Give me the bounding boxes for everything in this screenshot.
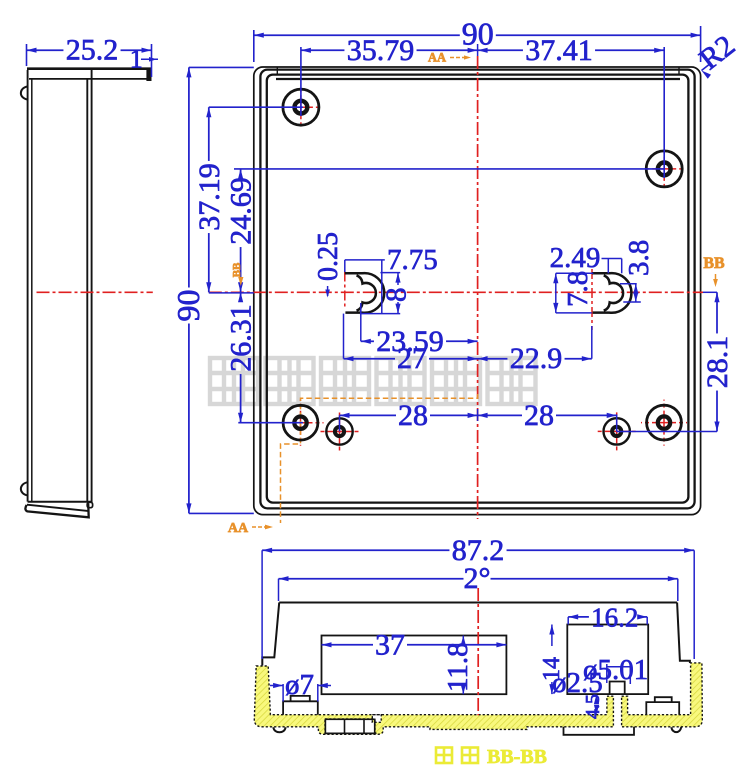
dimension 3.8 right keyhole	[620, 283, 637, 285]
left keyhole inner arc	[357, 275, 376, 310]
red centerline cross: top-right hole	[664, 168, 686, 170]
svg-text:28.1: 28.1	[701, 336, 734, 389]
svg-text:24.69: 24.69	[225, 177, 258, 245]
top-left counterbore hole	[283, 89, 319, 125]
svg-text:4.5: 4.5	[582, 694, 604, 719]
side view: main wall bottom cap	[87, 502, 92, 507]
side view: flange bottom edge	[29, 78, 151, 80]
svg-text:28: 28	[398, 399, 428, 432]
red horizontal centerline BB - main segment	[209, 291, 703, 293]
side view: main wall left line	[86, 79, 88, 503]
section view: top edge line	[279, 602, 677, 604]
top view: extra top inner edge line	[276, 78, 680, 80]
svg-text:7.8: 7.8	[562, 271, 594, 307]
dimension 4.5	[594, 694, 599, 704]
dimension 87.2	[261, 550, 263, 659]
dimension 35.79	[300, 47, 302, 116]
svg-text:28: 28	[524, 399, 554, 432]
svg-text:37.41: 37.41	[525, 34, 593, 67]
side view: left wall inner line	[31, 79, 33, 502]
dimension 23.59	[360, 303, 362, 341]
bottom-left small hole	[326, 418, 352, 444]
left keyhole dimension box 7.75	[345, 259, 385, 261]
bottom-right small hole	[604, 418, 630, 444]
red centerline: left keyhole vertical	[344, 272, 346, 309]
svg-text:2°: 2°	[464, 562, 491, 595]
dimension 22.9	[591, 326, 593, 359]
red centerline cross: bottom-left small hole	[340, 431, 359, 433]
dimension 24.69	[234, 168, 664, 170]
dimension 7.8 right keyhole	[556, 272, 594, 274]
svg-text:8: 8	[381, 288, 413, 303]
right keyhole inner arc	[604, 275, 623, 310]
side view: bottom face upper slant	[27, 505, 88, 511]
dimension 37.41	[663, 47, 665, 178]
svg-text:90: 90	[170, 290, 206, 322]
svg-text:AA: AA	[428, 51, 446, 65]
red horizontal centerline BB - side view segment	[37, 291, 153, 293]
radius leader R2	[702, 63, 712, 71]
svg-text:26.31: 26.31	[225, 304, 258, 372]
svg-text:ø7: ø7	[285, 669, 314, 701]
top view: outer outline rounded square 90x90	[254, 67, 701, 515]
section view: left foot	[273, 727, 285, 732]
red centerline cross: top-left hole	[301, 106, 323, 108]
section view: right foot	[671, 727, 681, 732]
svg-text:11.8: 11.8	[442, 642, 474, 692]
dimension 11.8	[462, 636, 464, 642]
svg-text:27: 27	[397, 342, 427, 375]
red centerline: right keyhole vertical	[591, 269, 593, 330]
section view: yellow hatched cut region right part	[622, 663, 703, 727]
section view: DIN clip inner rectangle	[325, 719, 374, 733]
section view: right pedestal clip	[646, 702, 679, 715]
svg-text:37: 37	[375, 628, 405, 661]
right keyhole slot outline	[592, 273, 631, 313]
red vertical centerline AA (top view)	[477, 56, 479, 519]
dimension 27	[343, 314, 345, 359]
dimension 37 (section)	[322, 644, 374, 646]
svg-text:25.2: 25.2	[66, 34, 119, 67]
red centerline cross: bottom-right small hole	[617, 430, 636, 432]
extension tick below 90 text	[477, 44, 479, 56]
side view: main wall right line	[91, 70, 93, 503]
section view: left upper wall outline	[262, 603, 279, 666]
svg-text:2.49: 2.49	[550, 242, 601, 274]
svg-text:BB-BB: BB-BB	[487, 746, 547, 768]
section view: inner box 16.2 x 14	[567, 625, 648, 695]
section view: inner box 37 x 11.8	[322, 636, 507, 695]
dimension 2 degrees	[278, 579, 280, 601]
red centerline cross: bottom-right big hole	[664, 422, 687, 424]
side view: bottom inner line	[28, 501, 91, 503]
dimension 28.1 right side	[703, 291, 717, 293]
bottom-right big counterbore hole	[647, 405, 682, 440]
dimension 26.31	[238, 422, 303, 424]
svg-text:7.75: 7.75	[387, 244, 438, 276]
side view: left wall outer line	[27, 70, 29, 502]
svg-text:16.2: 16.2	[591, 602, 638, 632]
side view: flange right end cap (1mm tab)	[146, 68, 151, 82]
svg-text:22.9: 22.9	[510, 342, 563, 375]
bottom-left big counterbore hole	[283, 405, 318, 440]
top view: inner wall outline	[267, 75, 689, 503]
svg-text:0.25: 0.25	[313, 232, 344, 281]
red centerline cross: bottom-left big hole	[301, 422, 324, 424]
side view: bottom face lower slant with left corner arc and right cap	[25, 503, 88, 517]
dimension 37.19	[209, 106, 303, 108]
svg-text:37.19: 37.19	[193, 163, 226, 231]
section view: left screw boss pedestal	[283, 701, 318, 714]
section view: yellow hatched cut region left wall and bottom band	[254, 666, 613, 734]
svg-text:AA: AA	[228, 521, 249, 536]
svg-text:BB: BB	[703, 255, 725, 272]
dimension 16.2	[567, 617, 569, 625]
section view: recess rectangle below band right	[564, 727, 635, 735]
dimension 8 left keyhole	[380, 272, 400, 274]
dimension dia 7	[282, 684, 284, 702]
dimension chain 28 + 28	[339, 415, 341, 431]
top view: top-right corner parting tick	[678, 67, 680, 75]
side view: flange top edge	[27, 67, 151, 70]
dimension 90 top	[253, 30, 255, 62]
side view: upper clip bump	[21, 86, 28, 99]
top view: middle outline	[260, 70, 694, 509]
dimension dia 5.01	[606, 664, 608, 683]
dimension 25.2 side view	[26, 44, 28, 66]
dimension 90 left side	[189, 66, 254, 68]
watermark text 图纸仅供参考 (gray, simulated strokes)	[210, 358, 536, 404]
orange section line AA stepped path	[281, 394, 478, 523]
top view: top-left corner parting tick	[276, 67, 278, 75]
red vertical centerline (section view)	[477, 588, 479, 715]
svg-text:35.79: 35.79	[347, 34, 415, 67]
svg-text:3.8: 3.8	[623, 240, 655, 276]
left keyhole slot outline	[345, 273, 384, 313]
side view: lower clip bump	[21, 482, 28, 495]
svg-text:BB: BB	[231, 262, 243, 277]
svg-text:1: 1	[130, 45, 143, 74]
top-right counterbore hole	[646, 151, 682, 187]
dimension 14	[551, 625, 553, 647]
extension line centerline to left dims	[209, 292, 254, 294]
section view: boss bump inside 16.2 box	[610, 682, 625, 695]
section view: right upper wall outline	[677, 603, 690, 664]
section title 剖面 BB-BB	[436, 748, 478, 764]
